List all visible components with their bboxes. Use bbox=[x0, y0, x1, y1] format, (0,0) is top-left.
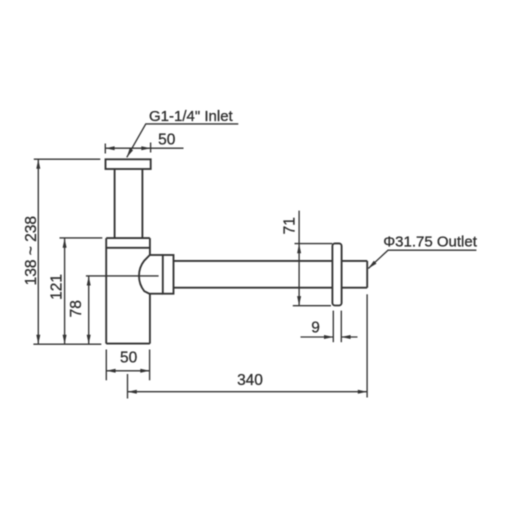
body right wall lower bbox=[149, 294, 151, 344]
elbow neck top edge bbox=[150, 254, 163, 256]
dim 340: left extension line bbox=[127, 374, 129, 399]
arrow 78 down bbox=[87, 335, 91, 344]
elbow dome bbox=[139, 255, 150, 294]
dim 71: bottom extension line bbox=[293, 305, 331, 307]
arrow 138-238 down bbox=[36, 335, 40, 344]
arrow 71 down bbox=[297, 296, 301, 305]
elbow neck bottom edge bbox=[150, 293, 163, 295]
body right wall upper bbox=[149, 238, 151, 255]
outlet pipe top line bbox=[174, 260, 368, 262]
arrow outlet leader bbox=[368, 261, 376, 269]
dim 138-238: top extension line bbox=[34, 158, 101, 160]
svg-text:50: 50 bbox=[120, 350, 138, 367]
svg-text:340: 340 bbox=[237, 372, 263, 389]
dim 138-238: dimension line bbox=[37, 159, 39, 344]
dim 78: dimension line bbox=[88, 276, 90, 344]
dim 50 top: right extension line bbox=[150, 143, 152, 153]
pipe centerline / dim 78 extension bbox=[86, 275, 159, 277]
dim 340: dimension line bbox=[128, 391, 368, 393]
dim 50 bottom: right extension line bbox=[149, 350, 151, 381]
dim 9: left dimension line bbox=[301, 336, 334, 338]
arrow dim50bot left bbox=[106, 369, 115, 373]
collar bottom line bbox=[106, 247, 150, 249]
dim 71: dimension line bbox=[298, 211, 300, 306]
svg-text:Φ31.75 Outlet: Φ31.75 Outlet bbox=[383, 233, 478, 250]
arrow 340 right bbox=[358, 390, 367, 394]
arrow inlet leader bbox=[127, 148, 133, 157]
arrow 9 right-seg bbox=[341, 335, 350, 339]
dim 121: top extension line bbox=[60, 237, 103, 239]
arrow dim50top left bbox=[105, 146, 114, 150]
inlet leader line bbox=[127, 124, 239, 157]
dim 340: right extension line bbox=[366, 294, 368, 397]
dim 9: right dimension line bbox=[341, 336, 357, 338]
svg-text:50: 50 bbox=[158, 131, 176, 148]
arrow 340 left bbox=[128, 390, 137, 394]
arrow 78 up bbox=[87, 276, 91, 285]
svg-text:121: 121 bbox=[49, 274, 66, 300]
inlet pipe wall left bbox=[114, 169, 116, 238]
bottom shared extension line bbox=[33, 343, 101, 345]
svg-text:G1-1/4" Inlet: G1-1/4" Inlet bbox=[149, 108, 234, 125]
inlet pipe wall right bbox=[141, 169, 143, 238]
svg-text:9: 9 bbox=[311, 319, 320, 336]
wall escutcheon flange bbox=[332, 243, 341, 305]
svg-text:71: 71 bbox=[282, 217, 299, 234]
dim 9: right extension line bbox=[340, 311, 342, 343]
arrow dim50top right bbox=[141, 146, 150, 150]
svg-text:78: 78 bbox=[68, 300, 85, 317]
union ring bbox=[163, 255, 174, 294]
outlet leader line bbox=[368, 250, 476, 268]
arrow dim50bot right bbox=[140, 369, 149, 373]
outlet pipe end bbox=[366, 261, 368, 288]
svg-text:138 ~ 238: 138 ~ 238 bbox=[23, 216, 40, 285]
dim 50 top: left extension line bbox=[104, 144, 106, 154]
dim 121: dimension line bbox=[64, 238, 66, 344]
arrow 71 up bbox=[297, 244, 301, 253]
arrow 121 up bbox=[63, 239, 67, 248]
arrow 121 down bbox=[63, 335, 67, 344]
dim 50 top: dimension line bbox=[105, 147, 183, 149]
dim 71: top extension line bbox=[295, 243, 333, 245]
outlet pipe bottom line bbox=[174, 287, 368, 289]
inlet flange bbox=[106, 159, 151, 169]
dim 50 bottom: left extension line bbox=[105, 350, 107, 381]
body bottom edge bbox=[106, 343, 150, 345]
arrow 9 left-seg bbox=[324, 335, 333, 339]
dim 50 bottom: dimension line bbox=[106, 370, 149, 372]
arrow 138-238 up bbox=[36, 159, 40, 168]
body top edge bbox=[106, 237, 150, 239]
body left wall bbox=[105, 238, 107, 344]
dim 9: left extension line bbox=[332, 311, 334, 343]
